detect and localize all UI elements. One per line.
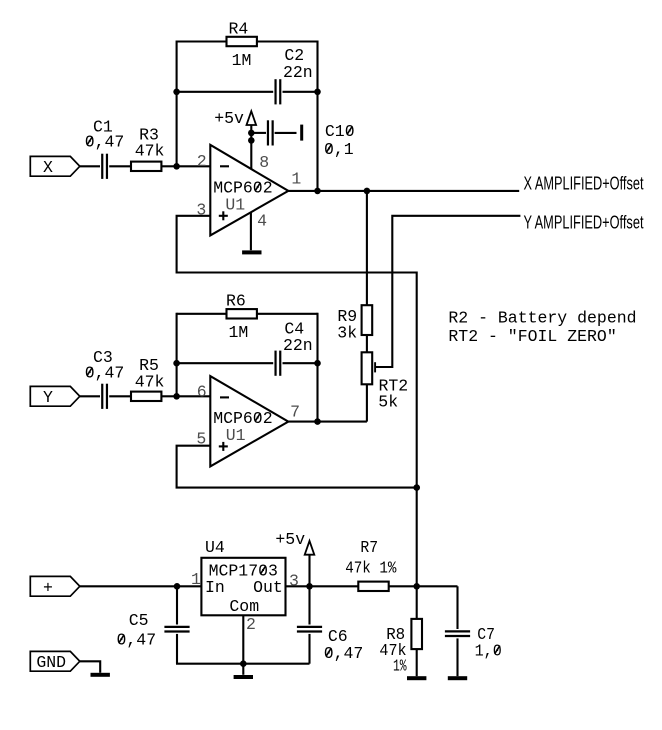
svg-text:MCP602: MCP602 — [213, 409, 272, 428]
svg-text:+: + — [43, 578, 53, 597]
svg-text:In: In — [205, 578, 225, 597]
svg-text:1,0: 1,0 — [475, 641, 502, 660]
svg-text:1%: 1% — [393, 656, 407, 675]
svg-text:R7: R7 — [360, 538, 378, 557]
svg-text:7: 7 — [290, 403, 300, 422]
svg-text:1: 1 — [291, 169, 301, 188]
svg-text:1M: 1M — [229, 323, 249, 342]
svg-text:47k: 47k — [135, 372, 165, 391]
svg-text:1M: 1M — [232, 51, 252, 70]
svg-text:5: 5 — [196, 429, 206, 448]
svg-text:22n: 22n — [283, 336, 313, 355]
svg-text:C5: C5 — [129, 611, 149, 630]
svg-text:3: 3 — [289, 571, 299, 590]
svg-text:X: X — [43, 158, 53, 177]
svg-text:R4: R4 — [229, 19, 249, 38]
svg-text:2: 2 — [246, 615, 256, 634]
svg-text:0,47: 0,47 — [85, 363, 125, 382]
svg-text:3k: 3k — [337, 324, 357, 343]
svg-text:6: 6 — [197, 383, 207, 402]
svg-text:8: 8 — [259, 153, 269, 172]
svg-text:R6: R6 — [226, 292, 246, 311]
svg-text:U4: U4 — [205, 538, 225, 557]
svg-text:3: 3 — [196, 201, 206, 220]
svg-text:0,47: 0,47 — [117, 631, 157, 650]
svg-text:R2 - Battery depend: R2 - Battery depend — [448, 309, 636, 328]
svg-text:U1: U1 — [225, 195, 245, 214]
svg-text:22n: 22n — [283, 63, 313, 82]
svg-text:0,47: 0,47 — [324, 644, 364, 663]
svg-text:Out: Out — [253, 578, 283, 597]
svg-text:X AMPLIFIED+Offset: X AMPLIFIED+Offset — [524, 173, 644, 194]
svg-text:GND: GND — [36, 653, 66, 672]
svg-text:+5v: +5v — [214, 109, 244, 128]
svg-text:Com: Com — [229, 597, 259, 616]
svg-text:Y: Y — [43, 388, 53, 407]
svg-text:5k: 5k — [378, 393, 398, 412]
svg-text:2: 2 — [197, 152, 207, 171]
svg-text:4: 4 — [257, 212, 267, 231]
svg-text:+5v: +5v — [275, 530, 305, 549]
svg-text:RT2 - "FOIL ZERO": RT2 - "FOIL ZERO" — [448, 327, 616, 346]
svg-text:Y AMPLIFIED+Offset: Y AMPLIFIED+Offset — [524, 212, 644, 233]
svg-text:C10: C10 — [325, 122, 355, 141]
svg-text:47k 1%: 47k 1% — [345, 558, 396, 577]
svg-text:0,47: 0,47 — [85, 133, 125, 152]
svg-text:1: 1 — [191, 570, 201, 589]
svg-text:U1: U1 — [226, 426, 246, 445]
svg-text:47k: 47k — [135, 142, 165, 161]
